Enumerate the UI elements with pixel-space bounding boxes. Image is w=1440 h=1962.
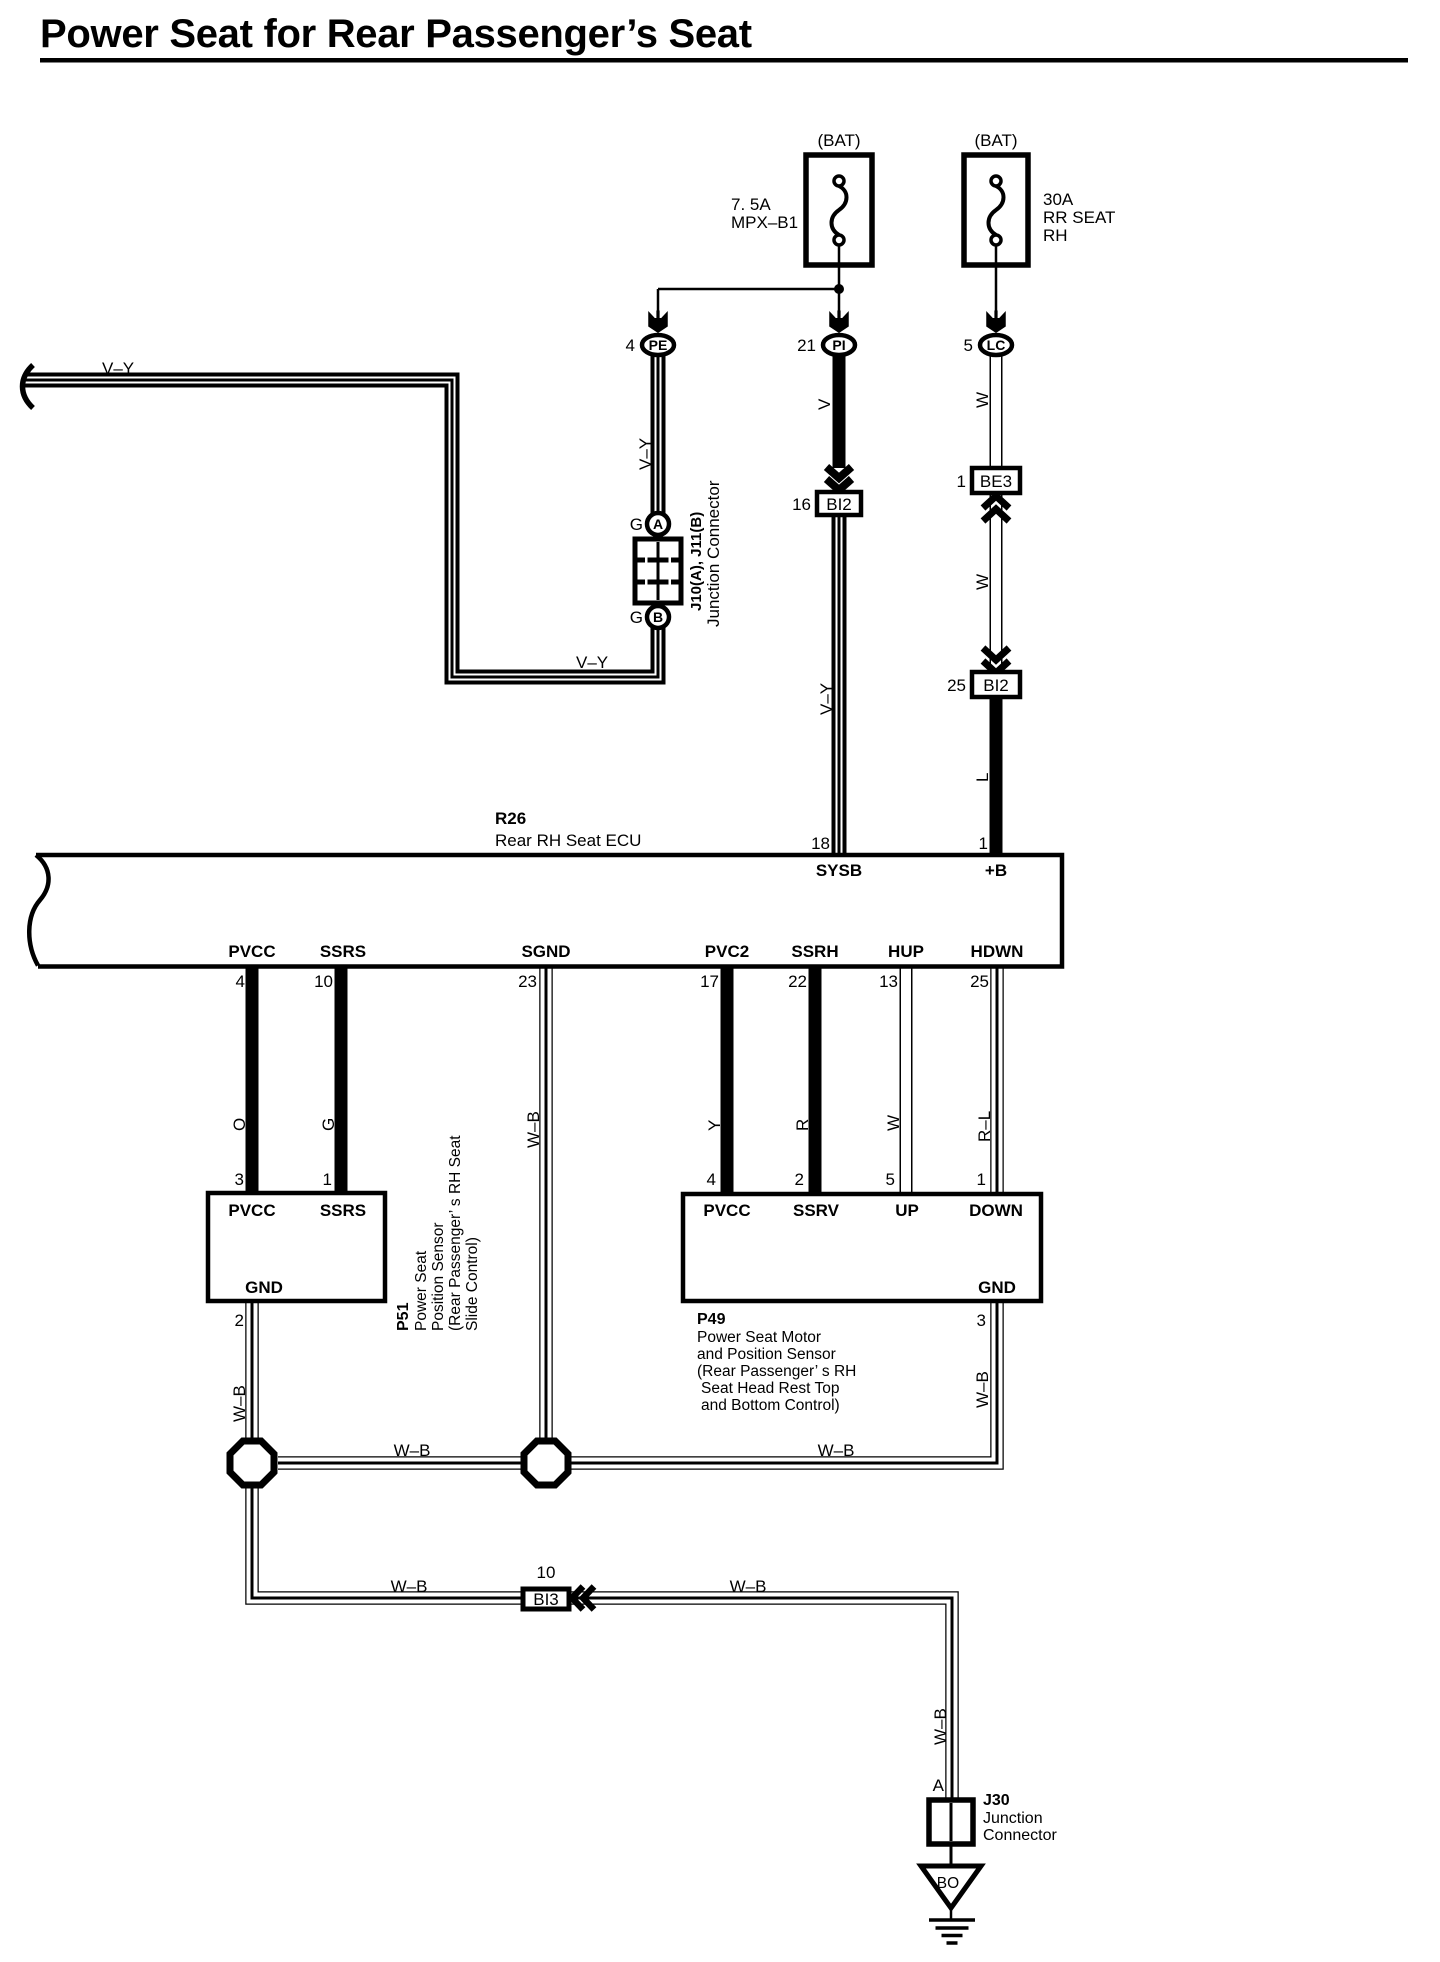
svg-text:4: 4 xyxy=(236,972,245,991)
svg-text:Y: Y xyxy=(705,1120,724,1131)
svg-text:BI2: BI2 xyxy=(826,495,852,514)
svg-text:+B: +B xyxy=(985,861,1007,880)
svg-text:BO: BO xyxy=(937,1875,959,1892)
svg-text:HUP: HUP xyxy=(888,942,924,961)
svg-text:Position Sensor: Position Sensor xyxy=(430,1222,447,1331)
svg-text:DOWN: DOWN xyxy=(969,1201,1023,1220)
svg-text:13: 13 xyxy=(879,972,898,991)
svg-text:5: 5 xyxy=(964,336,973,355)
svg-text:W–B: W–B xyxy=(931,1708,950,1745)
svg-text:(Rear Passenger’ s RH: (Rear Passenger’ s RH xyxy=(697,1363,856,1380)
svg-text:1: 1 xyxy=(979,834,988,853)
svg-text:A: A xyxy=(653,516,663,532)
svg-text:V–Y: V–Y xyxy=(817,683,836,715)
svg-text:V–Y: V–Y xyxy=(102,359,134,378)
svg-text:25: 25 xyxy=(947,676,966,695)
svg-text:25: 25 xyxy=(970,972,989,991)
svg-text:7. 5A: 7. 5A xyxy=(731,195,771,214)
svg-text:W–B: W–B xyxy=(730,1577,767,1596)
svg-text:G: G xyxy=(630,608,643,627)
svg-text:L: L xyxy=(973,773,992,782)
svg-text:5: 5 xyxy=(886,1170,895,1189)
svg-text:4: 4 xyxy=(707,1170,716,1189)
svg-text:W–B: W–B xyxy=(230,1385,249,1422)
svg-text:Connector: Connector xyxy=(983,1827,1057,1844)
svg-text:G: G xyxy=(319,1118,338,1131)
svg-text:W–B: W–B xyxy=(524,1111,543,1148)
svg-text:and Position Sensor: and Position Sensor xyxy=(697,1346,836,1363)
svg-text:V–Y: V–Y xyxy=(636,438,655,470)
svg-text:V: V xyxy=(815,398,834,410)
svg-text:W: W xyxy=(973,392,992,408)
svg-text:SSRV: SSRV xyxy=(793,1201,840,1220)
svg-text:P51: P51 xyxy=(395,1302,412,1331)
svg-text:HDWN: HDWN xyxy=(971,942,1024,961)
svg-text:UP: UP xyxy=(895,1201,919,1220)
svg-text:and Bottom Control): and Bottom Control) xyxy=(701,1397,840,1414)
svg-text:(BAT): (BAT) xyxy=(974,131,1017,150)
svg-text:Junction Connector: Junction Connector xyxy=(704,480,723,627)
svg-text:GND: GND xyxy=(245,1278,283,1297)
svg-text:V–Y: V–Y xyxy=(576,653,608,672)
svg-text:2: 2 xyxy=(795,1170,804,1189)
svg-text:W–B: W–B xyxy=(818,1441,855,1460)
svg-text:Power Seat for Rear Passenger’: Power Seat for Rear Passenger’s Seat xyxy=(40,12,752,56)
svg-text:1: 1 xyxy=(957,472,966,491)
svg-text:30A: 30A xyxy=(1043,190,1074,209)
svg-text:SGND: SGND xyxy=(521,942,570,961)
svg-text:A: A xyxy=(933,1776,945,1795)
svg-text:Slide Control): Slide Control) xyxy=(464,1237,481,1331)
svg-text:W–B: W–B xyxy=(391,1577,428,1596)
svg-text:1: 1 xyxy=(977,1170,986,1189)
svg-text:4: 4 xyxy=(626,336,635,355)
svg-text:22: 22 xyxy=(788,972,807,991)
svg-text:SSRS: SSRS xyxy=(320,1201,366,1220)
svg-text:W–B: W–B xyxy=(973,1371,992,1408)
svg-text:BI2: BI2 xyxy=(983,676,1009,695)
svg-text:2: 2 xyxy=(235,1311,244,1330)
svg-text:G: G xyxy=(630,515,643,534)
svg-text:16: 16 xyxy=(792,495,811,514)
svg-text:PVC2: PVC2 xyxy=(705,942,749,961)
svg-text:1: 1 xyxy=(323,1170,332,1189)
svg-text:B: B xyxy=(653,609,663,625)
svg-text:P49: P49 xyxy=(697,1311,726,1328)
svg-text:W: W xyxy=(884,1115,903,1131)
svg-text:PVCC: PVCC xyxy=(228,1201,275,1220)
svg-text:RH: RH xyxy=(1043,226,1068,245)
svg-text:W: W xyxy=(973,574,992,590)
svg-text:23: 23 xyxy=(518,972,537,991)
svg-text:LC: LC xyxy=(987,337,1006,353)
svg-text:18: 18 xyxy=(811,834,830,853)
svg-text:PI: PI xyxy=(832,337,845,353)
svg-text:BE3: BE3 xyxy=(980,472,1012,491)
svg-text:3: 3 xyxy=(977,1311,986,1330)
svg-text:21: 21 xyxy=(797,336,816,355)
svg-text:Junction: Junction xyxy=(983,1810,1043,1827)
svg-text:SYSB: SYSB xyxy=(816,861,862,880)
svg-text:Rear RH Seat ECU: Rear RH Seat ECU xyxy=(495,831,641,850)
svg-text:RR SEAT: RR SEAT xyxy=(1043,208,1115,227)
svg-text:MPX–B1: MPX–B1 xyxy=(731,213,798,232)
svg-text:10: 10 xyxy=(314,972,333,991)
svg-text:3: 3 xyxy=(235,1170,244,1189)
svg-text:17: 17 xyxy=(700,972,719,991)
svg-text:(BAT): (BAT) xyxy=(817,131,860,150)
svg-text:Power Seat: Power Seat xyxy=(413,1250,430,1331)
svg-text:10: 10 xyxy=(537,1563,556,1582)
svg-text:J10(A), J11(B): J10(A), J11(B) xyxy=(688,512,705,611)
svg-text:GND: GND xyxy=(978,1278,1016,1297)
svg-text:Power Seat Motor: Power Seat Motor xyxy=(697,1329,821,1346)
svg-text:R26: R26 xyxy=(495,809,526,828)
svg-text:PVCC: PVCC xyxy=(228,942,275,961)
svg-text:SSRH: SSRH xyxy=(791,942,838,961)
svg-text:PE: PE xyxy=(649,337,668,353)
svg-text:(Rear Passenger’ s RH Seat: (Rear Passenger’ s RH Seat xyxy=(447,1135,464,1331)
svg-text:O: O xyxy=(230,1118,249,1131)
svg-text:BI3: BI3 xyxy=(533,1590,559,1609)
svg-text:SSRS: SSRS xyxy=(320,942,366,961)
svg-text:R–L: R–L xyxy=(975,1111,994,1142)
svg-text:Seat Head Rest Top: Seat Head Rest Top xyxy=(701,1380,839,1397)
svg-text:R: R xyxy=(793,1119,812,1131)
svg-text:J30: J30 xyxy=(983,1792,1010,1809)
svg-text:PVCC: PVCC xyxy=(703,1201,750,1220)
svg-text:W–B: W–B xyxy=(394,1441,431,1460)
